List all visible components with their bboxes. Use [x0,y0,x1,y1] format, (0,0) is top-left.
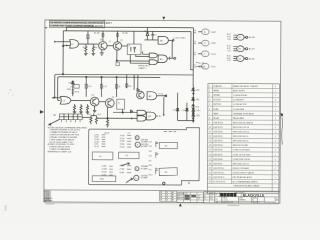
panel box XB1 [92,176,116,182]
panel label stack upper [141,139,149,148]
wire Q3 emitter [93,106,97,113]
gate L2 [70,40,79,48]
capacitor C9 [116,60,120,66]
margin annotation right [280,113,283,145]
notes block [47,127,87,153]
panel right stack [148,141,152,176]
panel arrow 2 [126,178,132,183]
connector J1 pin C [198,51,216,57]
contact mark K2 [156,152,158,157]
ground R7 [73,112,77,114]
transistor Q4 [105,96,114,107]
resistor R3 [102,33,104,36]
wire Q4 emitter [107,107,108,119]
label feed C [194,52,197,56]
gate B5 [137,116,146,121]
value label R5 [109,41,111,43]
connector J1 pin D [198,64,216,70]
gate L1 [60,97,71,105]
revision history block [44,190,53,203]
label TB1 [53,115,56,117]
diode CR6 [68,82,74,85]
panel top labels [105,131,177,135]
capacitor C1 [151,31,156,40]
wire gate B4 inputs [113,112,137,114]
panel fuse box F1 [92,152,113,160]
diode CR2 [137,88,140,91]
panel mid labels group 1 [120,135,131,149]
general notes box [49,20,113,28]
wire Q2 collector [116,31,118,42]
transistor Q1 [99,39,107,50]
drawn approved table [159,191,176,201]
wire gate B5 input [96,117,137,119]
resistor R8 [80,104,82,112]
diode CR4 [192,88,200,91]
diode CR10 [192,109,201,112]
component box Z1 [127,44,141,55]
border tick left top [45,27,47,29]
note labels mid [138,65,149,69]
panel switch S2 [159,168,177,176]
gate B3 [146,112,155,120]
resistor R2 [92,44,97,53]
manufacturer logo [220,193,236,197]
panel terminal labels group 1 [94,135,105,149]
wire branch x72 [72,80,74,96]
label feed A [194,30,197,34]
wire drop x86 [85,77,87,97]
lamp DS2 [135,142,140,147]
wire gate B3 output [156,115,161,117]
resistor R1 [83,44,87,53]
wire strip to resistors [82,116,91,118]
signature table [177,192,204,202]
wire right drop 2 [191,32,194,70]
node rail arrow [51,97,54,99]
relay K2 [227,44,255,52]
label feed D [194,65,197,69]
title block grid [215,192,279,204]
ground R8 [79,112,83,114]
wire Q2 to Z1 [122,45,128,47]
value label CR3 [94,33,101,35]
zone tick bottom [179,203,182,206]
lamp DS3 [135,167,139,171]
node chain junctions [193,93,195,119]
resistor R21 [106,118,110,127]
wire mid rail outer [55,74,194,98]
resistor R10 [86,104,88,112]
parts list table [207,83,279,193]
wire gate L1 output [71,99,90,101]
wire gate L2 input 2 [63,44,70,46]
wire Q1 collector [102,31,104,41]
wire box Z1 top [133,31,135,44]
transistor Q3 [90,95,99,106]
label feed B [194,41,197,45]
wire gate L2 input 1 [54,41,70,43]
wire gate A3 output [169,39,173,41]
parts table rows text [209,85,277,194]
company name BLACKVILLE [243,194,265,198]
node E1 [174,57,176,59]
node panel ground [163,182,190,185]
scan noise overlay [44,20,281,203]
diode CR5 [192,98,200,101]
wire drop x116 [115,77,117,97]
wire drop x134 [133,75,135,90]
component box Z3 [117,99,125,109]
value label R5b [122,33,129,35]
resistor R14 [87,114,92,124]
resistor R16 [85,84,92,88]
zone tick top [162,17,165,20]
ground R2 [92,53,96,55]
wire strip feed [48,119,60,125]
panel switch S1 [159,142,177,148]
wire tie bus [178,120,195,123]
contact mark K3 [156,168,158,175]
wire Q1 Q2 link [107,45,113,47]
gate A1 [158,55,167,63]
wire drop x101 [100,77,102,97]
diode CR11 [192,114,200,117]
panel label stack lower [141,165,149,180]
lamp DS1 [135,136,139,140]
wire right drop 1 [192,28,194,86]
paper edge shadow bottom [44,203,278,204]
wire gate A1 output [167,57,173,60]
gate A4 [149,53,157,58]
relay K1 [227,33,255,41]
wire Q1 emitter [101,50,103,53]
terminal strip TB1 [59,114,82,122]
net label TO J4 [158,94,166,97]
component box Z2 [67,85,79,91]
title header cells [231,184,252,192]
wire mid rail inner [58,77,161,101]
diode CR9 [182,109,189,113]
wire Q2 emitter corner [117,50,150,61]
wire Z3 pin [122,109,124,112]
gate A5 [149,60,157,65]
resistor R3A on riser [87,31,89,44]
wire A3 net drop [171,40,173,58]
panel fuse box F2 [119,152,140,159]
diode CR8 [172,108,179,111]
connector J1 pin A [198,29,216,35]
resistor R9 [72,90,81,94]
transistor Q5 [137,91,145,99]
wire right chain [192,86,194,120]
revision strip [204,192,215,203]
resistor R12 [192,105,199,109]
resistor R7 [73,104,75,112]
wire drop x126 [126,75,132,89]
frame bottom inner line [44,190,280,191]
wire top bus B+ [66,26,193,29]
node junction L2 [62,45,63,46]
resistor R17 [100,84,107,88]
ground R1 [84,53,88,55]
wire drop x137 [137,75,139,89]
panel mid labels group 2 [120,165,131,174]
wire gate L2 output [79,43,99,45]
resistor R4 [117,33,119,36]
node stub S1 drop [163,97,165,116]
wire top bus 2 [63,30,191,33]
panel enclosure outline [88,127,199,185]
panel arrow 1 [121,163,130,166]
ground Q1 [100,53,104,55]
net label (+)28V [196,62,206,68]
wire gate A2 output [157,95,164,97]
wire bus left link [65,27,67,31]
gate B4 [137,110,146,115]
wire cluster bottom [144,39,158,41]
net label (+)4.5V SEC [172,38,186,42]
wire Q3 Q4 link [99,101,105,103]
zone tick left [40,110,44,114]
bottom margin smudge [45,203,239,206]
gate A2 [147,92,157,100]
relay K3 [227,54,255,62]
connector J1 pin B [198,40,216,46]
wire resistor tops [91,113,97,115]
lamp DS4 [134,175,139,180]
wire gate A5 input 2 [130,55,149,64]
wire branch x177 [177,93,179,121]
ground R10 [86,112,90,114]
wire left drop to mid rail [62,31,64,75]
transistor Q2 [113,40,122,50]
wire gate A4 input 1 [143,51,150,54]
diode CR12 [130,110,133,113]
diode CR1 [144,27,149,39]
resistor R15 [95,114,101,124]
node junction J75 [62,74,117,78]
wire branch x185 [186,103,188,121]
resistor R18 [115,84,121,88]
panel terminal labels group 2 [102,166,113,177]
wire gate A4 input 2 [136,55,150,57]
gate A3 [158,36,168,44]
contact mark K1 [156,142,158,148]
